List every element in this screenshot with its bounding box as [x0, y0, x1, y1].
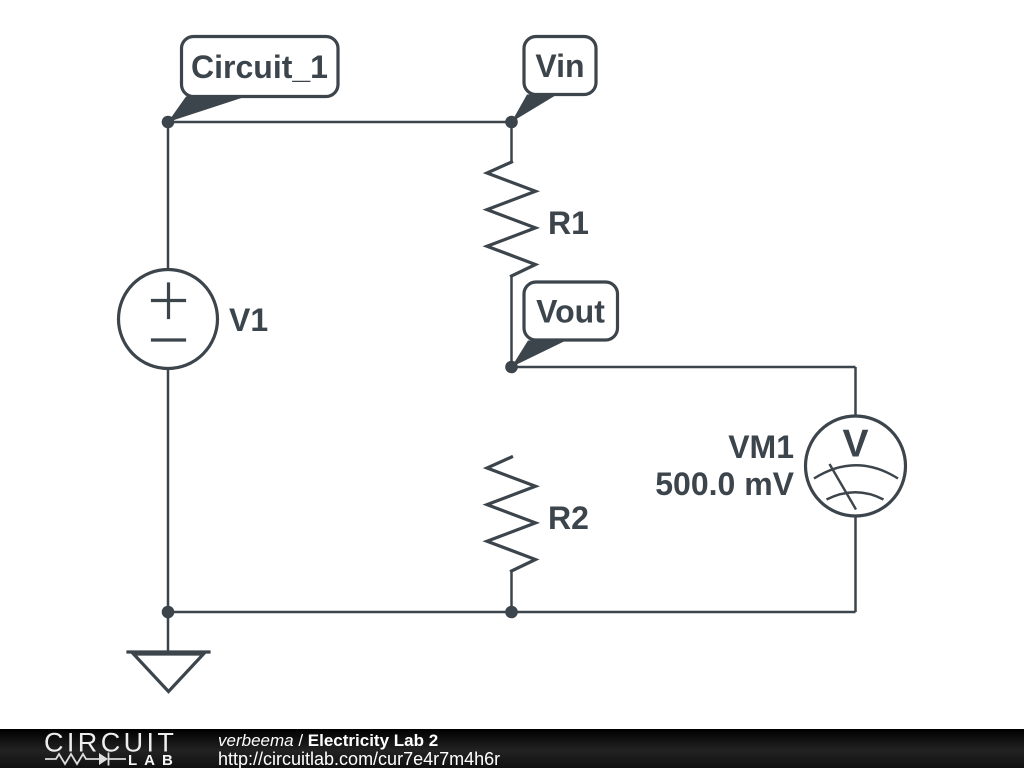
svg-text:http://circuitlab.com/cur7e4r7: http://circuitlab.com/cur7e4r7m4h6r	[218, 749, 500, 768]
svg-text:LAB: LAB	[128, 752, 180, 768]
svg-text:VM1: VM1	[728, 429, 794, 465]
svg-text:Vin: Vin	[535, 48, 584, 84]
svg-text:R2: R2	[548, 500, 589, 536]
svg-text:V1: V1	[229, 302, 268, 338]
svg-text:V: V	[842, 423, 868, 466]
svg-text:500.0 mV: 500.0 mV	[655, 466, 794, 502]
svg-text:R1: R1	[548, 205, 589, 241]
svg-text:Vout: Vout	[536, 294, 605, 330]
svg-text:verbeema / Electricity Lab 2: verbeema / Electricity Lab 2	[218, 731, 438, 750]
svg-text:Circuit_1: Circuit_1	[191, 49, 328, 85]
